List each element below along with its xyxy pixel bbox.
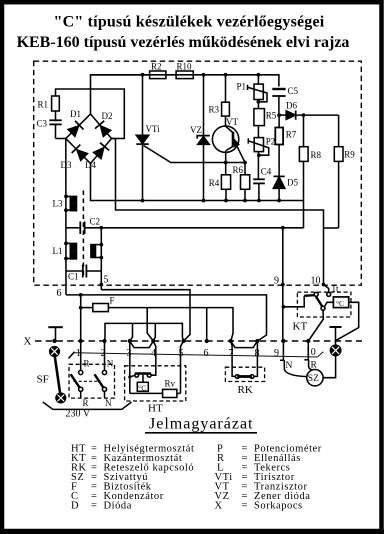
svg-text:Rv: Rv xyxy=(165,379,176,389)
shell end slash xyxy=(317,352,323,357)
svg-text:D: D xyxy=(71,501,79,512)
svg-text:°C: °C xyxy=(138,383,146,392)
svg-text:6: 6 xyxy=(204,348,209,359)
wire ac line from bridge right vertex xyxy=(112,139,324,285)
wire bridge left stub xyxy=(56,138,66,140)
interlock box RK dashed xyxy=(225,367,264,381)
HT terminal3 wire xyxy=(129,341,131,393)
wire upper left branch line xyxy=(56,89,125,139)
resistor R5 xyxy=(254,109,277,126)
svg-text:X: X xyxy=(215,501,223,512)
svg-text:X: X xyxy=(24,336,32,348)
bridge rectifier diamond xyxy=(66,114,112,164)
resistor Rv xyxy=(163,379,181,398)
svg-text:R8: R8 xyxy=(311,150,322,160)
svg-text:Dióda: Dióda xyxy=(104,501,132,512)
pump SZ xyxy=(307,370,323,386)
potentiometer P2 xyxy=(248,126,275,180)
SF switch pole R xyxy=(71,370,83,397)
wire H3 drop terminal3 xyxy=(130,323,133,341)
KT sensor box C xyxy=(325,297,349,308)
svg-text:D5: D5 xyxy=(287,178,298,188)
KT pole wire to terminal 10 xyxy=(308,310,323,341)
resistor R1 xyxy=(38,96,60,111)
wire top supply bus xyxy=(91,75,279,114)
wire H3 drop terminal4 xyxy=(153,323,155,341)
jumper terminals 3-4 xyxy=(130,341,154,348)
svg-text:C3: C3 xyxy=(37,119,48,129)
svg-text:P2: P2 xyxy=(266,137,276,147)
wire thyristor gate line xyxy=(144,146,246,163)
earth terminal right xyxy=(330,345,340,355)
shell lead-in slash SF xyxy=(69,352,75,359)
svg-text:C5: C5 xyxy=(288,86,299,96)
svg-text:C2: C2 xyxy=(90,217,101,227)
wire line2 to KT contact xyxy=(324,285,329,293)
node dots HT xyxy=(128,375,131,378)
zener diode VZ xyxy=(190,75,210,201)
fuse F xyxy=(81,295,148,311)
diode D6 xyxy=(279,101,339,120)
svg-text:KT: KT xyxy=(293,321,308,333)
legend right column xyxy=(215,444,322,512)
boiler thermostat box KT dashed xyxy=(297,292,351,317)
switch box SF dashed xyxy=(69,364,115,398)
RK closed link xyxy=(235,375,254,379)
svg-text:C4: C4 xyxy=(261,167,272,177)
svg-text:L1: L1 xyxy=(53,246,63,256)
resistor R7 xyxy=(275,115,297,176)
wire rail drop to output line xyxy=(303,201,305,229)
node dot KT line xyxy=(282,305,286,309)
resistor R10 xyxy=(166,62,193,79)
svg-text:°C: °C xyxy=(336,299,344,308)
svg-text:R4: R4 xyxy=(209,178,220,188)
svg-text:SZ: SZ xyxy=(308,374,319,384)
potentiometer P1 xyxy=(237,75,268,109)
HT sensor box C xyxy=(137,375,148,393)
legend left column xyxy=(71,444,194,512)
svg-text:D1: D1 xyxy=(70,109,81,119)
wire terminal1 riser xyxy=(80,295,82,341)
svg-text:230 V: 230 V xyxy=(66,409,91,420)
wire H3 lower link bus xyxy=(105,323,184,341)
svg-text:N: N xyxy=(107,359,114,369)
svg-text:SF: SF xyxy=(37,374,49,386)
earth symbol left probe xyxy=(48,327,63,341)
svg-text:"C" típusú készülékek vezérlőe: "C" típusú készülékek vezérlőegységei xyxy=(54,14,325,31)
transformer primary left wire xyxy=(65,139,67,295)
transformer core dashed line xyxy=(82,191,84,279)
wire secondary right vertical terminal 5 xyxy=(100,228,102,290)
RK terminal7 wire xyxy=(231,341,236,376)
HT bottom wire xyxy=(130,392,163,394)
resistor R3 xyxy=(209,75,230,116)
svg-text:R1: R1 xyxy=(38,100,49,110)
capacitor C4 xyxy=(253,167,272,201)
svg-text:R2: R2 xyxy=(151,62,162,72)
HT terminal5 wire xyxy=(181,341,184,393)
capacitor C2 xyxy=(66,217,100,235)
svg-text:L3: L3 xyxy=(53,199,63,209)
diode D2 xyxy=(95,111,113,137)
svg-text:VZ: VZ xyxy=(190,125,202,135)
KT sensor capillary wire xyxy=(336,302,359,340)
jumper terminals 7-8 xyxy=(231,341,258,348)
resistor R4 xyxy=(209,175,231,201)
diode D4 xyxy=(85,143,109,170)
capacitor C3 xyxy=(37,111,62,139)
KT left wire from terminal9 xyxy=(283,296,304,307)
pump R wire xyxy=(304,341,313,370)
svg-text:VTi: VTi xyxy=(146,124,161,134)
wire dc bottom rail xyxy=(91,164,304,201)
wire H0 terminal5 link xyxy=(101,290,190,341)
inductor L3 xyxy=(53,196,77,210)
svg-text:5: 5 xyxy=(104,275,109,286)
diode D1 xyxy=(68,109,83,136)
terminal dots X strip xyxy=(52,339,310,343)
transistor VT xyxy=(212,116,245,175)
diode D5 xyxy=(273,176,298,200)
svg-text:N: N xyxy=(286,361,293,371)
svg-text:KEB-160 típusú vezérlés működé: KEB-160 típusú vezérlés működésének elvi… xyxy=(17,34,350,51)
svg-text:R: R xyxy=(84,359,90,369)
wire H2 fuse line to terminals xyxy=(147,308,233,341)
capacitor C5 xyxy=(272,86,298,115)
svg-text:P1: P1 xyxy=(237,82,247,92)
SF mechanical link dashed xyxy=(74,380,101,382)
resistor R6 xyxy=(233,163,250,201)
svg-text:VT: VT xyxy=(226,117,238,127)
resistor R9 xyxy=(334,115,355,228)
svg-text:1t: 1t xyxy=(332,284,340,294)
terminal strip X dashed line xyxy=(35,340,362,342)
svg-text:R: R xyxy=(83,398,89,408)
svg-text:9: 9 xyxy=(274,276,279,287)
wire R9 bottom corner xyxy=(324,227,339,229)
svg-text:R6: R6 xyxy=(233,165,244,175)
svg-text:R9: R9 xyxy=(344,150,355,160)
svg-text:N: N xyxy=(105,398,112,408)
resistor R8 xyxy=(299,115,321,200)
HT terminal4 wire xyxy=(151,341,156,375)
svg-text:10: 10 xyxy=(311,276,321,287)
inductor L1 xyxy=(53,243,77,259)
connector shell top line xyxy=(75,353,318,357)
svg-text:=: = xyxy=(91,501,97,512)
RK terminal8 wire xyxy=(254,341,257,376)
svg-text:R5: R5 xyxy=(266,111,277,121)
svg-text:D6: D6 xyxy=(286,101,297,111)
svg-text:RK: RK xyxy=(238,384,253,396)
terminal numbers 1-10 xyxy=(76,347,316,359)
svg-text:Jelmagyarázat: Jelmagyarázat xyxy=(149,416,254,433)
SF switch pole N xyxy=(95,370,107,397)
HT contact pair xyxy=(130,373,151,377)
svg-text:R7: R7 xyxy=(286,130,297,140)
svg-text:=: = xyxy=(242,501,248,512)
SF pole R wire xyxy=(80,341,82,370)
SF pole N wire xyxy=(104,341,106,370)
svg-text:HT: HT xyxy=(148,403,163,415)
svg-text:6: 6 xyxy=(57,288,62,299)
svg-text:R3: R3 xyxy=(209,105,220,115)
svg-text:F: F xyxy=(110,295,115,305)
resistor R2 xyxy=(91,62,166,79)
svg-text:C1: C1 xyxy=(68,272,79,282)
thyristor VTi xyxy=(136,75,160,201)
wire H1 transformer to terminal8 xyxy=(66,295,267,341)
capacitor C1 xyxy=(66,265,101,282)
earth symbol right probe xyxy=(330,327,342,345)
thermostat box HT dashed xyxy=(125,366,186,401)
transformer secondary coil xyxy=(91,245,101,258)
230V bracket xyxy=(43,402,132,409)
main switch SF lever xyxy=(37,357,61,393)
control unit dashed enclosure xyxy=(34,61,362,285)
KT switch arm xyxy=(304,292,331,310)
svg-text:D2: D2 xyxy=(102,111,113,121)
earth terminal left xyxy=(50,347,60,357)
wire drop terminal6 xyxy=(206,308,208,341)
wire terminal 9 drop xyxy=(282,228,284,341)
svg-text:9: 9 xyxy=(274,348,279,359)
pump N wire xyxy=(280,341,307,377)
earth terminal SF bottom xyxy=(56,393,66,403)
diode D3 xyxy=(61,145,88,170)
svg-text:Sorkapocs: Sorkapocs xyxy=(254,501,303,512)
wire output line C2 node xyxy=(85,227,304,229)
wire fuse drop terminal4 xyxy=(147,308,153,341)
wire earth to pump xyxy=(323,356,336,378)
node dots main circuit xyxy=(64,73,325,310)
svg-text:R10: R10 xyxy=(177,62,193,72)
